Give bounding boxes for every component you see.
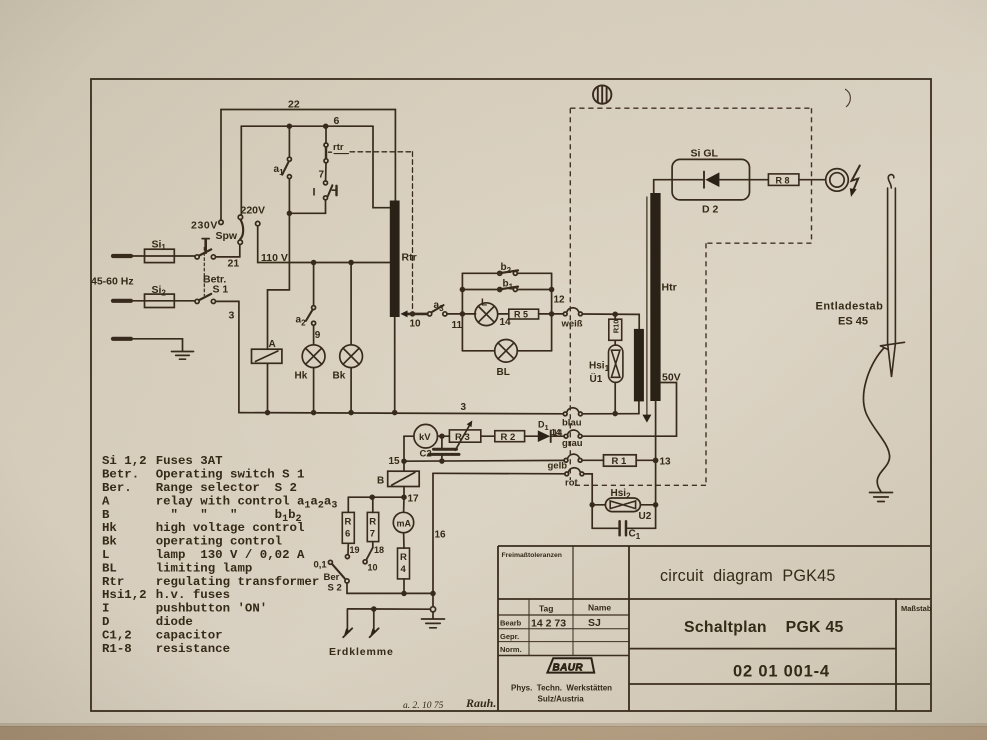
svg-text:Hsi1,2: Hsi1,2 bbox=[102, 588, 147, 602]
svg-text:ES 45: ES 45 bbox=[838, 316, 868, 328]
wire rot line bbox=[433, 472, 565, 475]
switch b2 branch bbox=[462, 270, 551, 275]
wire pushbutton drop bbox=[325, 126, 327, 143]
wire lower bus A bbox=[347, 592, 433, 594]
wiper arrow node 10 bbox=[401, 310, 428, 317]
relay B coil bbox=[388, 471, 420, 486]
svg-text:Range selector S 2: Range selector S 2 bbox=[156, 481, 297, 495]
wire rail 22 bbox=[221, 109, 395, 111]
node junction Bk on rail 3 bbox=[349, 411, 353, 415]
svg-text:19: 19 bbox=[350, 545, 360, 555]
connector blau bbox=[563, 408, 582, 416]
handwritten date bbox=[403, 696, 496, 711]
wire Si2 lead bbox=[131, 300, 195, 302]
stray pen mark top right bbox=[845, 89, 850, 107]
svg-text:Si GL: Si GL bbox=[691, 148, 719, 160]
svg-text:C2: C2 bbox=[420, 449, 432, 460]
terminal circle ground bbox=[430, 607, 435, 612]
wire lamp Bk to rail 3 bbox=[350, 368, 352, 413]
svg-text:regulating transformer: regulating transformer bbox=[156, 575, 320, 589]
svg-text:R: R bbox=[345, 517, 352, 528]
svg-text:7: 7 bbox=[370, 529, 375, 540]
transformer secondary bar bbox=[634, 329, 644, 402]
wire R3 to R2 bbox=[481, 435, 495, 437]
wire lamp Hk to rail 3 bbox=[313, 368, 315, 413]
svg-text:circuit diagram PGK45: circuit diagram PGK45 bbox=[660, 567, 836, 585]
wire rail 6 to transformer bbox=[373, 126, 390, 208]
svg-text:blau: blau bbox=[562, 418, 582, 429]
logo BAUR bbox=[547, 658, 594, 673]
resistor R4 bbox=[398, 548, 410, 593]
dashed unit boundary bbox=[570, 108, 811, 485]
svg-text:Phys. Techn. Werkstätten: Phys. Techn. Werkstätten bbox=[511, 684, 612, 693]
capacitor C2 bbox=[429, 436, 459, 461]
wire node 17 bus bbox=[348, 496, 404, 498]
svg-text:12: 12 bbox=[554, 295, 566, 306]
wire a1 drop bbox=[288, 126, 290, 157]
node junction Hk on rail 3 bbox=[312, 411, 316, 415]
connector weiss bbox=[563, 308, 582, 316]
svg-text:R 2: R 2 bbox=[501, 432, 516, 443]
wire a2 to lamp Hk bbox=[313, 325, 315, 345]
connector gelb bbox=[564, 454, 582, 462]
wire rail 6 bbox=[241, 125, 373, 127]
switch b1 branch bbox=[461, 287, 554, 292]
wire a2 drop bbox=[313, 263, 315, 306]
wire Hsi1 to blau line bbox=[614, 382, 616, 413]
cable marker circle bbox=[593, 85, 611, 103]
lamp Bk bbox=[340, 345, 363, 368]
svg-text:resistance: resistance bbox=[156, 642, 230, 656]
wire lower bus B bbox=[348, 608, 431, 610]
svg-text:BL: BL bbox=[102, 561, 117, 575]
svg-text:I: I bbox=[313, 187, 316, 199]
svg-text:Betr.: Betr. bbox=[102, 468, 139, 482]
resistor R7 bbox=[363, 497, 379, 564]
relay A coil bbox=[252, 349, 282, 363]
svg-text:15: 15 bbox=[389, 456, 401, 467]
svg-text:L: L bbox=[102, 548, 109, 562]
svg-text:50V: 50V bbox=[662, 372, 681, 384]
svg-text:Sulz/Austria: Sulz/Austria bbox=[538, 695, 585, 704]
wire 16 riser bbox=[432, 473, 434, 606]
wire node 3 down bbox=[216, 301, 239, 412]
selector Spw contact 220V bbox=[238, 215, 242, 219]
wire rail 22 into transformer top bbox=[394, 110, 396, 201]
svg-text:rtr: rtr bbox=[333, 142, 344, 153]
wire R5 to node 12 bbox=[539, 313, 564, 315]
node junction transformer on rail 3 bbox=[393, 411, 397, 415]
wire 110V tap bbox=[258, 226, 390, 263]
meter mA bbox=[393, 497, 413, 548]
node junction Hsi2 right bbox=[654, 503, 658, 507]
wire a1 to node bbox=[288, 179, 290, 214]
svg-text:pushbutton 'ON': pushbutton 'ON' bbox=[156, 602, 268, 616]
wire 50V tap bbox=[661, 383, 677, 437]
wire secondary bottom bbox=[638, 401, 640, 413]
lamp L bbox=[475, 303, 498, 326]
switch a3 bbox=[428, 305, 448, 316]
svg-text:17: 17 bbox=[408, 494, 420, 505]
earth clamp hook 2 bbox=[370, 609, 379, 637]
node junction b-group left bbox=[461, 312, 465, 316]
svg-text:Operating switch S 1: Operating switch S 1 bbox=[156, 468, 305, 482]
svg-text:a. 2. 10 75: a. 2. 10 75 bbox=[403, 701, 444, 711]
wire rot to Hsi2 bbox=[584, 474, 592, 505]
svg-text:R 8: R 8 bbox=[776, 175, 790, 185]
resistor R3 adjustable bbox=[449, 421, 480, 451]
wire lamp L to R5 bbox=[498, 313, 509, 315]
node junction a2 on 110V rail bbox=[312, 261, 316, 265]
svg-text:R 3: R 3 bbox=[455, 432, 470, 443]
wire to relay A coil bbox=[268, 213, 290, 349]
svg-text:Entladestab: Entladestab bbox=[816, 301, 884, 313]
wire mains stub L1 bbox=[113, 254, 131, 258]
svg-text:R 1: R 1 bbox=[612, 456, 628, 467]
svg-text:Si 1,2: Si 1,2 bbox=[102, 454, 147, 468]
svg-text:R: R bbox=[400, 552, 407, 563]
svg-text:capacitor: capacitor bbox=[156, 628, 223, 642]
wire mains stub L2 bbox=[113, 299, 131, 303]
svg-text:Htr: Htr bbox=[662, 282, 677, 294]
svg-text:Ber: Ber bbox=[324, 572, 340, 583]
cable to ground bbox=[864, 348, 890, 492]
svg-text:Schaltplan PGK 45: Schaltplan PGK 45 bbox=[684, 619, 844, 636]
svg-text:110 V: 110 V bbox=[261, 252, 288, 264]
wire Htr top to D2 bbox=[654, 180, 672, 193]
meter kV bbox=[404, 424, 449, 448]
wire rtr to node 7 bbox=[325, 163, 327, 181]
wire primary bar to rail 3 bbox=[394, 317, 396, 413]
svg-text:mA: mA bbox=[397, 519, 412, 529]
svg-text:14 2 73: 14 2 73 bbox=[531, 618, 566, 630]
node junction C2 top bbox=[440, 434, 444, 438]
svg-text:11: 11 bbox=[452, 320, 463, 331]
switch a2 bbox=[306, 306, 316, 326]
wire earth stub bbox=[113, 337, 131, 341]
svg-text:S 2: S 2 bbox=[328, 583, 342, 594]
node junction bus B bbox=[372, 607, 376, 611]
earth clamp hook 1 bbox=[343, 609, 352, 637]
svg-text:B: B bbox=[102, 508, 110, 522]
svg-text:Ber.: Ber. bbox=[102, 481, 132, 495]
transformer Rtr primary bar bbox=[390, 201, 400, 318]
pushbutton I bbox=[324, 181, 337, 200]
resistor R1 bbox=[582, 455, 653, 466]
node junction relay A on rail 3 bbox=[266, 411, 270, 415]
node junction bus A right bbox=[431, 592, 435, 596]
svg-text:45-60 Hz: 45-60 Hz bbox=[91, 276, 134, 288]
dashed rtr link bbox=[329, 151, 332, 153]
svg-text:4: 4 bbox=[401, 564, 407, 575]
svg-text:A: A bbox=[102, 494, 110, 508]
dashed rtr link vertical bbox=[412, 152, 414, 312]
resistor R6 bbox=[342, 497, 354, 558]
svg-text:16: 16 bbox=[435, 530, 447, 541]
svg-text:Ü1: Ü1 bbox=[590, 372, 603, 385]
wire relay A to rail 3 bbox=[267, 363, 269, 412]
selector Spw contact 230V bbox=[219, 220, 223, 224]
node 15 junction bbox=[402, 459, 406, 463]
wire 230V riser bbox=[220, 110, 222, 221]
svg-text:R10: R10 bbox=[612, 320, 621, 334]
lamp BL branch bbox=[462, 340, 551, 363]
svg-text:Tag: Tag bbox=[539, 604, 553, 614]
svg-text:A: A bbox=[269, 339, 276, 350]
node junction C2 bottom bbox=[440, 459, 444, 463]
transformer Htr bar bbox=[650, 193, 660, 401]
node junction b-group right bbox=[550, 312, 554, 316]
svg-text:6: 6 bbox=[334, 115, 340, 127]
relay A slash bbox=[256, 351, 278, 361]
selector Spw common bbox=[238, 240, 242, 244]
svg-text:operating control: operating control bbox=[156, 535, 282, 549]
fuse Si2 bbox=[145, 294, 175, 307]
node junction Bk on 110V rail bbox=[349, 261, 353, 265]
node 17 junction bbox=[402, 495, 406, 499]
ground main bbox=[422, 612, 445, 628]
svg-text:3: 3 bbox=[461, 402, 467, 413]
svg-text:rot: rot bbox=[565, 478, 579, 489]
svg-text:Rtr: Rtr bbox=[402, 252, 417, 264]
wire b-group right riser bbox=[551, 273, 553, 351]
connector grau bbox=[564, 430, 582, 438]
svg-text:Name: Name bbox=[588, 603, 611, 613]
node junction Hsi2 left bbox=[590, 503, 594, 507]
lamp Hk bbox=[302, 345, 325, 368]
svg-text:lamp 130 V / 0,02 A: lamp 130 V / 0,02 A bbox=[156, 548, 305, 562]
lightning arrow bbox=[850, 166, 860, 197]
wire B to node 17 bbox=[403, 487, 405, 498]
svg-text:Bearb: Bearb bbox=[500, 619, 522, 628]
svg-text:C1,2: C1,2 bbox=[102, 628, 132, 642]
svg-text:6: 6 bbox=[345, 529, 350, 540]
svg-text:0,1: 0,1 bbox=[314, 560, 328, 571]
wire blau link bbox=[582, 413, 639, 415]
svg-text:B: B bbox=[377, 476, 384, 487]
switch S2 bbox=[328, 560, 349, 593]
svg-text:kV: kV bbox=[419, 432, 431, 443]
contact rtr bbox=[324, 143, 328, 163]
svg-text:18: 18 bbox=[374, 545, 384, 555]
discharge rod Entladestab bbox=[881, 175, 905, 377]
wire Htr bottom node 13 riser bbox=[655, 401, 657, 528]
wire Si1 lead bbox=[131, 255, 195, 257]
svg-text:Bk: Bk bbox=[333, 371, 346, 382]
wire 220V riser bbox=[240, 126, 242, 215]
diode D1 bbox=[538, 430, 564, 442]
svg-text:Hk: Hk bbox=[102, 521, 117, 535]
S1 mechanical coupling dashed bbox=[203, 248, 205, 296]
svg-text:diode: diode bbox=[156, 615, 193, 629]
node junction a1 on rail 6 bbox=[288, 124, 292, 128]
resistor R8 bbox=[768, 174, 799, 186]
connector rot bbox=[565, 468, 584, 476]
fuse Hsi1 bbox=[609, 345, 623, 382]
svg-text:21: 21 bbox=[228, 258, 240, 270]
ground mains earth bbox=[172, 352, 194, 360]
resistor R2 bbox=[495, 431, 525, 442]
node junction Hsi1 bottom bbox=[613, 412, 617, 416]
svg-text:Maßstab: Maßstab bbox=[901, 604, 932, 613]
svg-text:3: 3 bbox=[229, 310, 235, 322]
svg-text:S 1: S 1 bbox=[213, 284, 229, 296]
wire R2 to D1 bbox=[525, 435, 539, 437]
svg-text:SJ: SJ bbox=[588, 617, 601, 629]
svg-text:Rtr: Rtr bbox=[102, 575, 124, 589]
ground discharge rod bbox=[870, 493, 893, 502]
svg-text:U2: U2 bbox=[639, 511, 652, 522]
wire node 15 riser bbox=[403, 436, 405, 471]
HV output terminal bbox=[826, 169, 849, 192]
wire pushbutton bottom bbox=[289, 200, 325, 213]
switch S1 pole 1 bbox=[195, 239, 215, 259]
title block bbox=[498, 546, 930, 711]
selector Spw wiper bbox=[240, 220, 243, 240]
svg-text:Rauh.: Rauh. bbox=[465, 696, 496, 710]
resistor R5 bbox=[509, 309, 539, 319]
node 13 junction bbox=[654, 458, 658, 462]
node junction R7 top bbox=[370, 495, 374, 499]
svg-text:weiß: weiß bbox=[561, 319, 583, 330]
svg-text:high voltage control: high voltage control bbox=[156, 521, 305, 535]
svg-text:I: I bbox=[102, 602, 109, 616]
svg-text:Norm.: Norm. bbox=[500, 645, 522, 654]
svg-text:Gepr.: Gepr. bbox=[500, 632, 519, 641]
svg-text:220V: 220V bbox=[241, 205, 266, 217]
node junction pushbutton on rail 6 bbox=[324, 124, 328, 128]
wire to earth bbox=[131, 339, 183, 351]
svg-text:14: 14 bbox=[553, 427, 563, 437]
svg-text:BAUR: BAUR bbox=[553, 662, 584, 673]
svg-text:D 2: D 2 bbox=[702, 204, 719, 216]
wire weiss to secondary top bbox=[582, 314, 639, 329]
svg-text:9: 9 bbox=[315, 330, 321, 341]
svg-text:Hk: Hk bbox=[295, 371, 308, 382]
svg-text:14: 14 bbox=[500, 317, 512, 328]
svg-text:R 5: R 5 bbox=[514, 310, 528, 320]
switch a1 bbox=[282, 157, 291, 178]
legend text bbox=[102, 454, 337, 656]
diode box Si GL bbox=[672, 159, 749, 200]
svg-text:Fuses 3AT: Fuses 3AT bbox=[156, 454, 223, 468]
svg-text:R1-8: R1-8 bbox=[102, 642, 132, 656]
svg-text:D: D bbox=[102, 615, 109, 629]
svg-text:10: 10 bbox=[368, 563, 378, 573]
wire b-group left riser bbox=[461, 273, 463, 351]
svg-text:02 01 001-4: 02 01 001-4 bbox=[733, 663, 830, 681]
node junction rtr dashed link bbox=[411, 312, 415, 316]
svg-text:gelb: gelb bbox=[548, 461, 568, 472]
svg-text:Spw: Spw bbox=[216, 230, 238, 242]
svg-text:Erdklemme: Erdklemme bbox=[329, 646, 394, 658]
capacitor C1 bbox=[592, 505, 655, 536]
svg-text:L: L bbox=[481, 298, 487, 309]
svg-text:Freimaßtoleranzen: Freimaßtoleranzen bbox=[502, 552, 562, 559]
border frame bbox=[91, 79, 931, 711]
wire R8 to output bbox=[799, 179, 826, 181]
switch S1 pole 2 bbox=[195, 294, 215, 304]
svg-text:R: R bbox=[369, 517, 376, 528]
fuse Hsi2 bbox=[592, 498, 653, 512]
wire Bk drop bbox=[350, 263, 352, 345]
svg-text:10: 10 bbox=[410, 319, 422, 330]
svg-text:grau: grau bbox=[562, 438, 583, 449]
selector Spw contact 110V bbox=[256, 221, 260, 225]
node junction R10 top bbox=[613, 312, 617, 316]
fuse Si1 bbox=[145, 249, 175, 262]
wire grau line bbox=[582, 435, 676, 437]
node junction a1 pushbutton bbox=[288, 211, 292, 215]
svg-text:Bk: Bk bbox=[102, 535, 117, 549]
diode D2 bbox=[672, 172, 768, 188]
wire gelb line from node 15 bbox=[404, 459, 564, 462]
svg-text:230V: 230V bbox=[191, 220, 218, 232]
svg-text:limiting lamp: limiting lamp bbox=[156, 561, 253, 575]
wire node 21 to Spw common bbox=[216, 245, 240, 257]
resistor R10 bbox=[609, 314, 622, 345]
svg-text:22: 22 bbox=[288, 99, 300, 111]
wire a3 to lamp group bbox=[447, 313, 476, 315]
svg-text:7: 7 bbox=[319, 170, 325, 181]
wire rail 3 bbox=[239, 413, 563, 414]
svg-text:13: 13 bbox=[660, 457, 672, 468]
node junction R4 bottom bbox=[402, 592, 406, 596]
svg-text:h.v. fuses: h.v. fuses bbox=[156, 588, 230, 602]
svg-text:BL: BL bbox=[497, 367, 510, 378]
HV arrow down bbox=[642, 197, 651, 423]
